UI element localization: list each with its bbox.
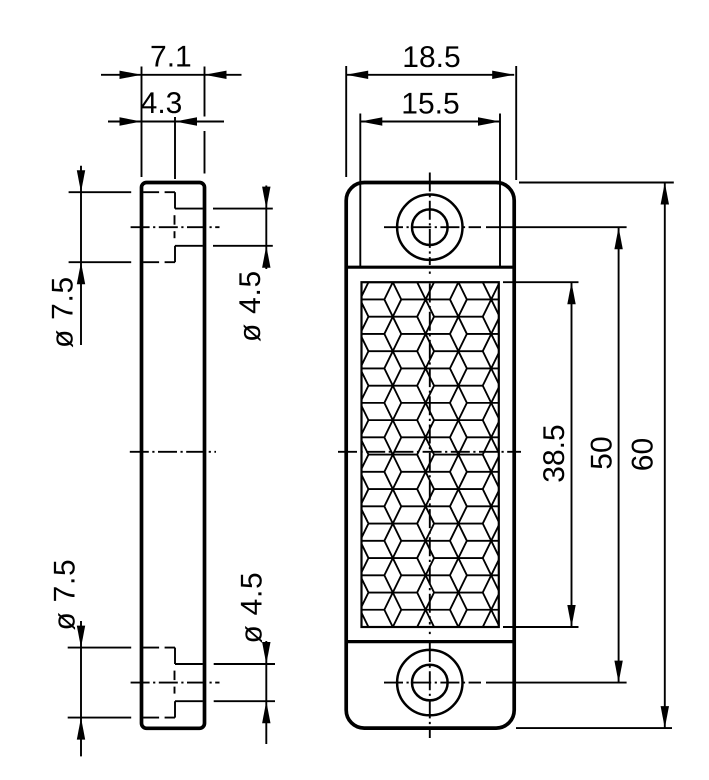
dim dia4.5 bottom arrows (262, 641, 270, 744)
dim 38.5 extension lines (503, 282, 579, 627)
lower hole horizontal centerline (384, 682, 481, 684)
dim 50 extension lines (486, 227, 627, 682)
dim text dia4.5 bottom (236, 572, 269, 644)
svg-text:50: 50 (586, 436, 619, 469)
dim text dia4.5 top (234, 270, 267, 342)
svg-text:ø 7.5: ø 7.5 (47, 276, 80, 348)
dim 15.5 line and arrows (360, 117, 500, 125)
dim text dia7.5 top (47, 276, 80, 348)
side view lower countersunk hole (section edges) (143, 648, 203, 718)
reflective area pattern (352, 265, 500, 644)
svg-text:60: 60 (627, 438, 660, 471)
dim text 4.3 (141, 87, 183, 120)
dim text dia7.5 bottom (49, 559, 82, 631)
upper mounting hole outer circle (397, 195, 462, 260)
dim dia4.5 top arrows (262, 186, 270, 270)
svg-text:ø 7.5: ø 7.5 (49, 559, 82, 631)
svg-text:ø 4.5: ø 4.5 (234, 270, 267, 342)
lower separation line (346, 640, 514, 643)
dim text 38.5 (538, 424, 571, 482)
svg-text:7.1: 7.1 (150, 41, 192, 74)
dim dia7.5 top extension lines (69, 192, 132, 262)
dim 18.5 line and arrows (346, 71, 514, 79)
upper mounting hole inner circle (412, 209, 448, 245)
dim dia7.5 bottom extension lines (68, 648, 132, 718)
dim 50 line and arrows (614, 227, 622, 682)
front view vertical centerline (429, 173, 431, 739)
dim 60 extension lines (516, 183, 674, 729)
svg-text:38.5: 38.5 (538, 424, 571, 482)
upper hole centerline (131, 215, 220, 238)
side view mid centerline (130, 451, 216, 453)
lower mounting hole outer circle (397, 650, 462, 715)
lower mounting hole inner circle (412, 665, 448, 701)
dim dia7.5 bottom arrows (77, 621, 85, 756)
dim 18.5 extension lines (346, 66, 516, 180)
svg-text:18.5: 18.5 (402, 41, 460, 74)
dim 7.1 extension lines (142, 67, 205, 178)
side view upper countersunk hole (section edges) (143, 192, 203, 262)
dim 38.5 line and arrows (567, 282, 575, 627)
dim dia4.5 top extension lines (213, 209, 273, 246)
dim 60 line and arrows (661, 183, 669, 729)
upper hole horizontal centerline (384, 226, 481, 228)
dim dia4.5 bottom extension lines (214, 664, 275, 701)
side view body outline (142, 183, 205, 729)
svg-text:4.3: 4.3 (141, 87, 183, 120)
upper separation line (346, 266, 514, 269)
dim 4.3 extension line (174, 117, 176, 179)
front view body outline (346, 183, 514, 729)
lower hole centerline (131, 671, 220, 694)
dim text 7.1 (150, 41, 192, 74)
svg-text:15.5: 15.5 (401, 88, 459, 121)
dim 15.5 extension lines (360, 114, 500, 268)
dim text 18.5 (402, 41, 460, 74)
dim 7.1 line and arrows (101, 71, 242, 79)
front view mid centerline (338, 451, 521, 453)
dim dia7.5 top arrows (77, 166, 85, 345)
svg-text:ø 4.5: ø 4.5 (236, 572, 269, 644)
dim text 50 (586, 436, 619, 469)
dim text 60 (627, 438, 660, 471)
dim text 15.5 (401, 88, 459, 121)
dim 4.3 line and arrows (108, 117, 224, 125)
